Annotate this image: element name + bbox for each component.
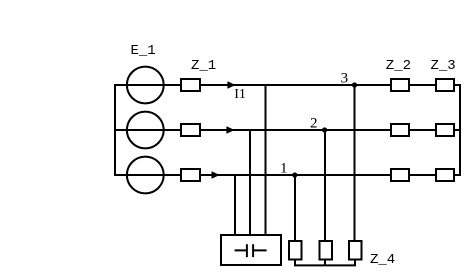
- svg-text:2: 2: [310, 116, 318, 132]
- svg-text:I1: I1: [234, 87, 246, 102]
- svg-text:3: 3: [341, 71, 349, 87]
- svg-text:1: 1: [280, 161, 288, 177]
- svg-text:Z_2: Z_2: [386, 58, 411, 74]
- svg-text:Z_4: Z_4: [370, 252, 395, 268]
- svg-text:E_1: E_1: [131, 43, 156, 59]
- svg-text:Z_3: Z_3: [431, 58, 456, 74]
- svg-text:Z_1: Z_1: [191, 58, 216, 74]
